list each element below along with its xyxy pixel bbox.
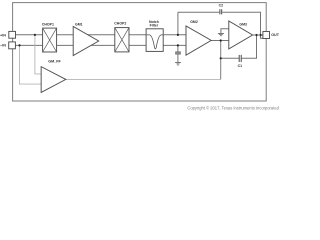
wire GM_FF riser to GM2 output node <box>220 41 222 80</box>
op-amp GM3 <box>229 21 253 49</box>
svg-text:Copyright © 2017, Texas Instru: Copyright © 2017, Texas Instruments Inco… <box>187 105 279 110</box>
wire GM2 output to GM3 input <box>211 40 229 42</box>
svg-text:CHOP1: CHOP1 <box>42 22 54 26</box>
svg-text:GM_FF: GM_FF <box>48 60 61 64</box>
wire C1 tee right and riser to OUT node <box>242 35 257 58</box>
chopper CHOP2 <box>114 22 129 52</box>
node dot notch output lower <box>177 44 179 46</box>
chopper CHOP1 <box>42 22 57 52</box>
node dot GM2 output <box>220 39 222 41</box>
notch filter block <box>146 20 163 52</box>
wire GM3 output to OUT pin <box>253 34 263 36</box>
pin box OUT <box>263 32 270 39</box>
wire C2 top rail right segment down to OUT pin <box>222 12 263 38</box>
wire -IN branch down to GM_FF lower input <box>20 45 42 84</box>
svg-text:CHOP2: CHOP2 <box>114 22 126 26</box>
svg-text:OUT: OUT <box>271 33 280 37</box>
wire +IN branch down to GM_FF upper input <box>35 35 41 74</box>
svg-text:GM1: GM1 <box>75 22 83 26</box>
wire notch cap stub <box>177 45 179 52</box>
capacitor C2 <box>220 9 222 14</box>
svg-text:GM3: GM3 <box>239 23 247 27</box>
pin box +IN <box>9 31 16 38</box>
capacitor C1 <box>239 55 241 62</box>
node dot notch output upper <box>177 34 179 36</box>
svg-text:−IN: −IN <box>0 44 6 48</box>
wire C1 tee left <box>221 57 239 59</box>
svg-text:C1: C1 <box>238 64 243 68</box>
wire C2 riser from notch output node <box>177 12 179 35</box>
arrowhead into OUT pin <box>260 34 263 37</box>
op-amp GM_FF feedforward <box>41 60 66 93</box>
wire C2 top rail left segment <box>178 11 219 13</box>
capacitor to ground at notch output <box>175 52 181 54</box>
wire -IN rail <box>13 44 186 46</box>
ground at GM3 upper input <box>218 33 224 35</box>
wire GM3 upper input ground connector <box>221 29 229 33</box>
svg-text:GM2: GM2 <box>190 20 198 24</box>
ground below notch cap <box>175 62 181 64</box>
wire +IN rail <box>13 34 186 36</box>
node dot -IN branch <box>18 44 20 46</box>
node dot +IN branch <box>34 34 36 36</box>
op-amp GM1 <box>73 22 99 55</box>
IC boundary box <box>13 3 267 101</box>
svg-text:C2: C2 <box>219 4 224 8</box>
op-amp GM2 <box>186 20 211 55</box>
node dot C1 tee <box>220 57 222 59</box>
svg-text:+IN: +IN <box>0 33 6 37</box>
wire GM_FF output rail <box>66 78 221 80</box>
svg-text:Filter: Filter <box>150 23 159 27</box>
node dot OUT <box>255 34 257 36</box>
pin box -IN <box>9 42 16 49</box>
